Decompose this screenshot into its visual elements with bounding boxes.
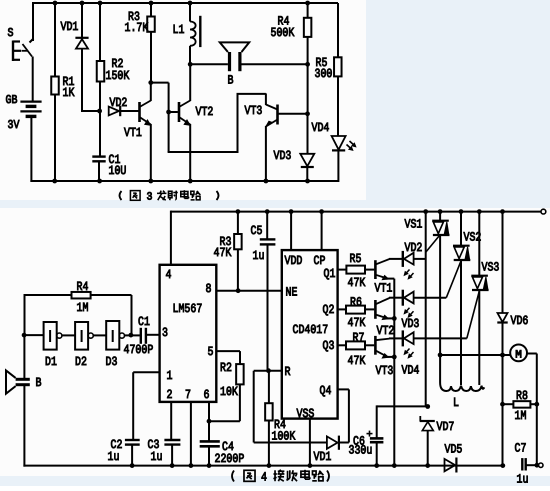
- resistor R2 label: [106, 57, 130, 83]
- resistor R2 body: [97, 61, 105, 82]
- diode VD2 label: [110, 96, 128, 110]
- transistor VT2 base bar: [178, 102, 181, 122]
- thyristor VS1 label: [405, 218, 423, 232]
- thyristor VS2 label: [464, 231, 482, 245]
- node bottom rail junctions: [52, 179, 310, 184]
- node VT1 collector junction: [148, 80, 153, 85]
- svg-text:100K: 100K: [272, 430, 296, 444]
- led VD2 symbol: [403, 251, 426, 267]
- gate D3 label: [106, 355, 118, 369]
- svg-text:1.7K: 1.7K: [125, 21, 149, 35]
- wire C4 to ground rail: [208, 446, 210, 465]
- wire R2 down to pin6 node: [209, 384, 240, 421]
- resistor R4 body: [304, 18, 312, 37]
- switch S E-bracket: [13, 41, 21, 62]
- gate D2 box: [75, 322, 88, 350]
- node R2 to pin6 junction: [207, 419, 212, 424]
- wire Q2 to R6: [338, 308, 346, 310]
- svg-text:VD5: VD5: [445, 443, 463, 457]
- node top rail junctions: [53, 1, 310, 6]
- thyristor VS3 label: [482, 261, 500, 275]
- wire speaker row right: [242, 63, 308, 65]
- thyristor VS2 gate: [446, 262, 460, 298]
- svg-text:4700P: 4700P: [124, 343, 154, 357]
- resistor R4 1M body: [72, 292, 91, 299]
- led VD2 label: [405, 241, 423, 255]
- wire VD1 row: [254, 442, 327, 444]
- svg-text:L: L: [453, 396, 459, 410]
- resistor R7 47K label: [348, 331, 366, 368]
- svg-text:VT1: VT1: [124, 126, 142, 140]
- resistor R8 label: [515, 389, 528, 423]
- gate D2 label: [75, 355, 87, 369]
- svg-text:M: M: [515, 350, 522, 362]
- wire VT1 collector to VT2 base: [151, 83, 178, 112]
- transistor VT2b base bar: [374, 300, 377, 319]
- node mic junction: [22, 333, 27, 338]
- diode VD1 symbol: [75, 38, 88, 49]
- capacitor C4 label: [215, 440, 245, 466]
- svg-text:VD3: VD3: [274, 149, 292, 163]
- resistor R5 47K body: [346, 266, 365, 274]
- thyristor VS3 symbol: [471, 212, 488, 385]
- resistor R4 100K body: [265, 403, 273, 420]
- svg-text:4: 4: [261, 471, 267, 485]
- svg-text:LM567: LM567: [173, 302, 203, 316]
- node L1-VT2-speaker junction: [188, 62, 193, 67]
- led VD3 label: [402, 317, 420, 331]
- svg-text:8: 8: [206, 282, 212, 296]
- diode VD6 label: [511, 314, 529, 328]
- LM567 pin7 label: [185, 388, 191, 402]
- wire R6 to VT2 base: [365, 308, 374, 310]
- wire LM567 pin6 down: [208, 402, 210, 441]
- wire R8 right to C7: [536, 404, 538, 465]
- wire LM567 pin1 to C2: [133, 372, 159, 439]
- LM567 pin1 label: [167, 369, 173, 383]
- svg-text:VD6: VD6: [511, 314, 529, 328]
- wire speaker row left: [190, 63, 228, 65]
- capacitor C6 label: [349, 435, 373, 458]
- capacitor C5 label: [251, 224, 265, 263]
- wire top rail of transmitter: [33, 2, 338, 4]
- wire emitter bus: [393, 279, 395, 466]
- diode VD3 label: [274, 149, 292, 163]
- resistor R4 100K label: [272, 418, 296, 444]
- wire led anode bus: [425, 212, 427, 407]
- gate D2 bubble: [88, 333, 93, 338]
- svg-text:R: R: [285, 365, 291, 379]
- node R8 junctions: [500, 402, 539, 407]
- diode VD5 symbol: [445, 458, 457, 473]
- microphone B plates: [16, 379, 30, 384]
- svg-text:B: B: [36, 376, 42, 390]
- wire VD6 column to ground rail: [502, 355, 504, 466]
- CD4017 Q1 label: [324, 267, 336, 281]
- transistor VT1 emitter: [140, 117, 151, 181]
- diode VD6 wire: [502, 212, 504, 313]
- caption fig 4 receiver: [232, 470, 329, 485]
- resistor R1 body: [51, 77, 59, 95]
- svg-text:B: B: [228, 74, 234, 88]
- svg-text:C1: C1: [138, 315, 150, 329]
- wire left drop to switch S: [32, 2, 34, 41]
- svg-text:CP: CP: [314, 254, 326, 268]
- svg-text:CD4017: CD4017: [293, 323, 329, 337]
- inductor L1 coil: [190, 22, 196, 46]
- op-amp U2 CD4017 box: [282, 250, 338, 419]
- transistor VT3 label: [245, 104, 263, 118]
- LM567 pin3 label: [162, 326, 168, 340]
- transistor VT1b label: [375, 282, 393, 296]
- switch S label: [8, 26, 14, 40]
- transistor VT2b collector: [375, 298, 402, 305]
- svg-text:330u: 330u: [349, 444, 373, 458]
- svg-text:1M: 1M: [77, 301, 89, 315]
- svg-text:10U: 10U: [109, 164, 127, 178]
- resistor R4 wire: [307, 3, 309, 64]
- thyristor VS1 symbol: [432, 212, 449, 355]
- resistor R5 label: [315, 56, 333, 81]
- svg-text:VT2: VT2: [377, 324, 395, 338]
- svg-text:VD1: VD1: [61, 20, 79, 34]
- led VD4 symbol: [332, 136, 346, 150]
- resistor R4 label: [271, 15, 295, 41]
- svg-text:VT2: VT2: [196, 105, 214, 119]
- diode VD7 label: [437, 420, 455, 434]
- node VS1 coil junction: [438, 353, 443, 358]
- led VD4b arrows: [404, 349, 413, 358]
- svg-text:VD4: VD4: [312, 121, 330, 135]
- CD4017 Q3 label: [323, 339, 335, 353]
- transistor VT3b emitter: [375, 350, 394, 358]
- node VD7 top junction: [425, 404, 430, 409]
- diode VD1 label: [61, 20, 79, 34]
- transistor VT1 label: [124, 126, 142, 140]
- resistor R5 47K label: [348, 252, 366, 290]
- CD4017 R label: [285, 365, 291, 379]
- svg-text:Q1: Q1: [324, 267, 336, 281]
- wire Q3 to R7: [338, 344, 346, 346]
- svg-text:3: 3: [147, 192, 153, 204]
- node R pin C5 junction: [266, 368, 271, 373]
- wire C1 to LM567 pin3: [146, 334, 160, 336]
- inductor L label: [453, 396, 459, 410]
- wire VT2 base to VT3 collector loop: [168, 94, 266, 153]
- diode VD3 symbol: [300, 154, 314, 167]
- svg-text:7: 7: [185, 388, 191, 402]
- op-amp U1 LM567 box: [160, 265, 217, 402]
- terminal circle bottom right: [539, 463, 543, 467]
- svg-text:5: 5: [208, 345, 214, 359]
- svg-text:VD4: VD4: [402, 364, 420, 378]
- capacitor C7 plates: [522, 458, 525, 470]
- resistor R2 10K label: [220, 361, 238, 399]
- wire VD4 to bottom rail: [337, 151, 339, 182]
- svg-text:4: 4: [166, 268, 172, 282]
- wire VD1 to Q4: [338, 389, 349, 442]
- switch S fixed contact tick: [30, 39, 34, 43]
- resistor R3 47K label: [214, 235, 232, 260]
- inductor L coil: [440, 354, 484, 391]
- svg-text:VT1: VT1: [375, 282, 393, 296]
- resistor R4 1M label: [77, 280, 89, 315]
- gate D1 box: [44, 322, 57, 350]
- transistor VT3 base bar: [276, 105, 279, 125]
- svg-text:C7: C7: [515, 442, 527, 456]
- capacitor C3 plates: [164, 440, 180, 445]
- resistor R5 body: [334, 57, 342, 76]
- inductor L1 label: [173, 23, 185, 37]
- resistor R3 body: [147, 17, 155, 32]
- diode VD2 symbol: [109, 106, 139, 116]
- inductor L1 core bar: [199, 16, 201, 47]
- svg-text:VS1: VS1: [405, 218, 423, 232]
- wire D3 to C1: [125, 334, 140, 336]
- svg-text:1u: 1u: [253, 249, 265, 263]
- transistor VT1 base bar: [138, 102, 141, 122]
- gate D3 box: [106, 321, 119, 350]
- led VD4 arrows: [347, 141, 356, 150]
- led VD4 label: [312, 121, 330, 135]
- svg-text:VT3: VT3: [245, 104, 263, 118]
- node emitter bus junctions: [392, 316, 397, 359]
- LM567 pin4 label: [166, 268, 172, 282]
- svg-text:47K: 47K: [348, 276, 366, 290]
- wire LM567 pin2 to C3: [170, 402, 172, 439]
- wire C3 to ground rail: [171, 445, 173, 466]
- wire R4 junction down to VT3 base: [307, 64, 309, 114]
- diode VD6 symbol: [497, 313, 507, 323]
- svg-text:R6: R6: [350, 296, 362, 310]
- node VT2 base junction: [166, 110, 171, 115]
- wire motor row: [440, 354, 510, 356]
- CD4017 NE label: [286, 286, 298, 300]
- svg-text:6: 6: [204, 388, 210, 402]
- svg-text:3V: 3V: [8, 118, 21, 132]
- node R4-speaker junction: [305, 62, 310, 67]
- svg-text:VT3: VT3: [376, 364, 394, 378]
- led VD3 symbol: [403, 290, 447, 306]
- wire battery to bottom rail: [30, 117, 338, 182]
- wire D2 to D3: [93, 334, 106, 336]
- capacitor C1 wire: [99, 111, 100, 181]
- svg-text:D3: D3: [106, 355, 118, 369]
- svg-text:VD3: VD3: [402, 317, 420, 331]
- diode VD5 label: [445, 443, 463, 457]
- svg-text:R4: R4: [77, 280, 89, 294]
- resistor R5 wire: [337, 3, 339, 136]
- diode VD1 label: [314, 450, 332, 464]
- capacitor C2 label: [108, 438, 123, 464]
- battery 3V label: [8, 118, 21, 132]
- svg-text:47K: 47K: [348, 354, 366, 368]
- motor M circle: [510, 345, 527, 362]
- thyristor VS1 gate: [426, 235, 440, 252]
- wire D1 to D2: [62, 334, 75, 336]
- node C1 junction: [129, 333, 134, 338]
- capacitor C6 plus sign: [367, 431, 373, 437]
- wire VSS to ground rail: [309, 419, 311, 466]
- wire CP to rail: [321, 212, 323, 251]
- svg-text:D2: D2: [75, 355, 87, 369]
- svg-text:150K: 150K: [106, 69, 130, 83]
- CD4017 VDD label: [285, 254, 303, 268]
- node R3 bottom junction: [236, 288, 241, 293]
- transistor VT3 collector: [266, 93, 278, 109]
- capacitor C4 plates: [200, 441, 220, 446]
- svg-text:47K: 47K: [214, 246, 232, 260]
- svg-text:VDD: VDD: [285, 254, 303, 268]
- svg-text:C5: C5: [251, 224, 263, 238]
- resistor R8 body: [513, 401, 530, 408]
- svg-text:NE: NE: [286, 286, 298, 300]
- wire mic top: [23, 335, 25, 378]
- battery GB label: [6, 93, 18, 107]
- resistor R1 wire: [54, 3, 56, 181]
- capacitor C5 wire: [266, 212, 268, 371]
- svg-text:1: 1: [167, 369, 173, 383]
- led VD4b label: [402, 364, 420, 378]
- wire top rail of receiver: [171, 211, 542, 213]
- resistor R3 label: [125, 10, 149, 35]
- node VT3 base junction: [305, 111, 310, 116]
- transistor VT1b collector: [375, 259, 402, 265]
- battery GB plates: [20, 102, 41, 117]
- transistor VT2b label: [377, 324, 395, 338]
- LM567 pin2 label: [167, 388, 173, 402]
- transistor VT3 emitter: [266, 120, 278, 182]
- CD4017 Q2 label: [323, 303, 335, 317]
- wire LM567 pin4 to rail: [170, 211, 172, 265]
- svg-text:VSS: VSS: [297, 407, 315, 421]
- svg-text:2: 2: [167, 388, 173, 402]
- resistor R3 47K wire: [237, 212, 239, 291]
- transistor VT3b collector: [375, 338, 402, 340]
- capacitor C1 label: [109, 153, 127, 178]
- svg-text:L1: L1: [173, 23, 185, 37]
- wire motor right: [527, 354, 537, 405]
- capacitor C1 4700P plates: [141, 328, 146, 344]
- svg-text:10K: 10K: [220, 385, 238, 399]
- svg-text:D1: D1: [45, 355, 57, 369]
- node receiver top rail junctions: [236, 209, 505, 214]
- thyristor VS3 gate: [467, 292, 479, 339]
- svg-text:R2: R2: [220, 361, 232, 375]
- svg-text:3: 3: [162, 326, 168, 340]
- capacitor C6 wire: [376, 405, 378, 465]
- capacitor C7 label: [515, 442, 529, 487]
- microphone B horn: [6, 370, 16, 393]
- wire Q4 node row: [377, 405, 428, 407]
- transistor VT3 base lead: [278, 113, 308, 115]
- wire R5 to VT1 base: [365, 269, 374, 271]
- svg-text:1u: 1u: [151, 450, 163, 464]
- capacitor C6 plates: [370, 438, 384, 442]
- svg-text:VS3: VS3: [482, 261, 500, 275]
- gate D1 bubble: [57, 333, 62, 338]
- svg-text:2200P: 2200P: [215, 452, 245, 466]
- transistor VT3b base bar: [374, 336, 377, 355]
- wire R8 leads: [503, 403, 537, 405]
- svg-text:Q3: Q3: [323, 339, 335, 353]
- svg-text:VD1: VD1: [314, 450, 332, 464]
- resistor R6 47K label: [348, 296, 366, 331]
- svg-text:GB: GB: [6, 93, 18, 107]
- wire VD6 to motor row: [502, 323, 504, 356]
- speaker B horn: [220, 42, 249, 52]
- svg-text:R5: R5: [350, 252, 362, 266]
- svg-text:S: S: [8, 26, 14, 40]
- svg-text:R7: R7: [353, 331, 365, 345]
- LM567 pin8 label: [206, 282, 212, 296]
- transistor VT2 emitter: [179, 117, 190, 181]
- LM567 pin5 label: [208, 345, 214, 359]
- CD4017 CP label: [314, 254, 326, 268]
- diode VD1 wire: [81, 3, 100, 111]
- capacitor C5 plates: [260, 239, 276, 244]
- node VD2 anode junction: [97, 109, 102, 114]
- speaker B label: [228, 74, 234, 88]
- transistor VT2 label: [196, 105, 214, 119]
- wire VD7 to ground rail: [427, 431, 429, 466]
- svg-text:1M: 1M: [515, 409, 527, 423]
- svg-text:500K: 500K: [271, 26, 295, 40]
- capacitor C1 plates: [92, 157, 105, 162]
- resistor R2 10K body: [236, 364, 244, 384]
- LM567 pin6 label: [204, 388, 210, 402]
- switch S arm: [22, 44, 33, 57]
- transistor VT1b emitter: [375, 275, 394, 280]
- thyristor VS2 symbol: [453, 212, 470, 385]
- transistor VT2b emitter: [375, 315, 394, 320]
- node ground rail junctions: [130, 463, 540, 468]
- resistor R4 100K wire: [268, 371, 270, 466]
- svg-text:Q4: Q4: [320, 384, 332, 398]
- resistor R4 1M wire: [24, 295, 132, 335]
- transistor VT1 collector: [140, 83, 151, 107]
- wire switch to battery: [32, 57, 34, 102]
- svg-text:R8: R8: [516, 389, 528, 403]
- resistor R6 47K body: [346, 306, 365, 314]
- gate D1 label: [45, 355, 57, 369]
- wire LM567 pin8 to CD4017 NE: [216, 290, 281, 292]
- CD4017 Q4 label: [320, 384, 332, 398]
- CD4017 name label: [293, 323, 329, 337]
- led VD4b symbol: [403, 330, 467, 346]
- speaker B plates: [230, 52, 240, 71]
- wire C7 right to terminal: [526, 464, 539, 466]
- wire mic to D1: [24, 334, 43, 336]
- capacitor C1 4700P label: [124, 315, 154, 357]
- inductor L1 wire: [189, 3, 191, 64]
- node motor row junction: [500, 353, 505, 358]
- microphone B label: [36, 376, 42, 390]
- caption fig 3 transmitter: [120, 190, 219, 203]
- LM567 name label: [173, 302, 203, 316]
- wire CD4017 NE stub: [281, 290, 283, 292]
- resistor R3 47K body: [234, 234, 242, 249]
- diode VD7 symbol: [420, 416, 435, 431]
- svg-text:1u: 1u: [517, 473, 529, 487]
- resistor R2 wire: [99, 3, 101, 112]
- wire VDD to rail: [290, 212, 292, 251]
- svg-text:VD7: VD7: [437, 420, 455, 434]
- wire C2 to ground rail: [131, 445, 133, 466]
- svg-text:300: 300: [315, 67, 333, 81]
- wire Q1 to R5: [338, 269, 347, 271]
- wire mic bottom to ground rail: [23, 386, 502, 467]
